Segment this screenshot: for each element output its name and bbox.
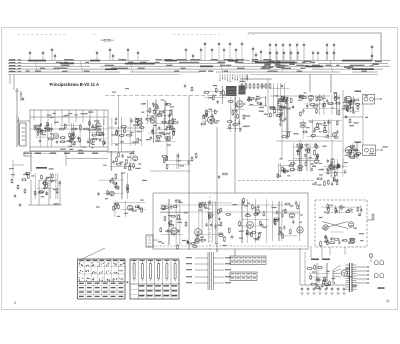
resistor R246 <box>349 145 355 147</box>
label value <box>177 222 182 223</box>
wire center v156 <box>155 99 157 142</box>
capacitor C6 <box>109 48 111 53</box>
wire stage drop <box>336 159 338 177</box>
resistor R73 <box>80 125 82 131</box>
tube V28 <box>96 130 101 135</box>
label value <box>312 184 315 185</box>
wire stage drop <box>319 94 321 115</box>
wire stage rail2 <box>281 130 292 132</box>
wire stage drop <box>284 83 286 117</box>
capacitor C298 <box>45 191 47 195</box>
label bus <box>235 59 244 60</box>
label value scatter <box>359 233 364 234</box>
wire stage rail2 <box>121 209 146 211</box>
label value scatter <box>258 232 261 233</box>
label value <box>322 98 325 99</box>
label bus <box>164 59 172 60</box>
wire stage rail2 <box>37 187 55 189</box>
wire stage drop <box>356 143 358 159</box>
resistor R221 <box>288 165 294 167</box>
table TR frame <box>130 259 179 299</box>
label value scatter <box>167 144 171 145</box>
wire bundle 3 <box>211 252 213 290</box>
wire stage rail <box>107 152 134 154</box>
resistor R230 <box>11 178 13 184</box>
label bundle <box>225 282 231 283</box>
capacitor C37 <box>218 42 220 47</box>
label bus <box>224 59 231 60</box>
wire rf drop <box>33 110 35 121</box>
capacitor C338 <box>187 160 189 164</box>
resistor R324 <box>118 204 120 209</box>
label bus <box>40 68 44 69</box>
wire rf drop <box>82 110 84 123</box>
output box frame <box>315 200 367 247</box>
resistor R172 <box>335 96 337 101</box>
resistor R79 <box>103 140 105 145</box>
wire stage drop <box>111 151 113 171</box>
wire stage drop <box>198 201 200 243</box>
wire cap lead <box>297 55 299 60</box>
label band chunk <box>342 60 372 62</box>
label value <box>304 144 309 145</box>
wire cap lead <box>371 58 373 60</box>
wire v268 <box>267 79 269 118</box>
capacitor C308 <box>112 160 114 164</box>
resistor R224 <box>297 166 304 168</box>
wire stage drop <box>301 143 303 171</box>
capacitor C103 <box>137 123 139 127</box>
wire stage drop <box>235 97 237 132</box>
capacitor C320 <box>97 192 99 196</box>
wire stage drop <box>155 100 157 124</box>
capacitor C307 <box>132 151 134 155</box>
resistor R428 <box>349 238 355 240</box>
label value scatter <box>120 141 124 142</box>
capacitor C88 <box>102 132 104 136</box>
wire stage drop <box>246 199 248 243</box>
label bus <box>84 71 90 72</box>
capacitor C15 <box>260 50 262 55</box>
label 22-66 <box>355 91 362 92</box>
resistor R46 <box>83 128 89 130</box>
capacitor C100 <box>115 121 117 125</box>
wire stage drop <box>327 263 329 289</box>
label value <box>143 103 146 104</box>
capacitor C485 <box>331 287 333 291</box>
capacitor C156 <box>281 84 283 88</box>
wire vol down <box>30 156 32 172</box>
resistor R133 <box>241 83 243 89</box>
resistor R154 <box>276 115 282 117</box>
capacitor C25 <box>290 51 292 56</box>
label bus <box>264 65 270 66</box>
label value scatter <box>294 133 299 134</box>
label value scatter <box>135 168 140 169</box>
label value scatter <box>245 126 250 127</box>
resistor R354 <box>171 215 177 217</box>
resistor R244 <box>350 149 352 154</box>
resistor R249 <box>350 157 356 159</box>
resistor R248 <box>353 149 359 151</box>
resistor R466 <box>307 268 313 270</box>
capacitor C483 <box>319 287 321 291</box>
label value scatter <box>107 193 111 194</box>
resistor R200 <box>283 97 289 99</box>
label value scatter <box>261 86 266 87</box>
label value scatter <box>328 122 332 123</box>
label value <box>351 107 354 108</box>
wire rf drop <box>47 110 49 121</box>
capacitor C237 <box>304 153 306 157</box>
wire stage rail2 <box>87 138 106 140</box>
wire bus jog <box>220 61 223 73</box>
resistor R210 <box>317 122 319 128</box>
resistor R240 <box>191 86 193 91</box>
label value scatter <box>345 107 349 108</box>
label bus <box>355 65 365 66</box>
label bus <box>312 65 320 66</box>
transformer T2 <box>346 263 357 292</box>
label value <box>121 172 125 173</box>
capacitor C132 <box>205 112 207 116</box>
resistor R163 <box>223 90 225 96</box>
resistor R305 <box>118 152 120 158</box>
resistor R110 <box>145 118 152 120</box>
capacitor C24 <box>283 51 285 56</box>
capacitor C220 <box>218 175 220 179</box>
wire stage rail <box>150 110 171 112</box>
label value scatter <box>354 122 359 123</box>
resistor R179 <box>300 111 302 116</box>
wire bus 5 <box>8 71 378 73</box>
wire hang <box>239 74 240 82</box>
label value scatter <box>81 146 86 147</box>
table TL frame <box>78 259 126 299</box>
resistor R54 <box>45 128 51 130</box>
resistor R351 <box>164 216 166 222</box>
capacitor C487 <box>343 287 345 291</box>
label value <box>345 155 350 156</box>
label bus <box>191 62 199 63</box>
resistor R69 <box>69 132 71 138</box>
resistor R71 <box>64 123 66 129</box>
label value scatter <box>319 217 323 218</box>
wire stage rail2 <box>202 120 220 122</box>
wire drop247 <box>246 74 248 80</box>
label bus left <box>9 59 16 60</box>
resistor R45 <box>71 128 77 130</box>
label bus boxtext <box>275 64 280 65</box>
wire stage drop <box>339 94 341 115</box>
label rf under <box>78 153 84 154</box>
label band chunk <box>28 60 46 62</box>
wire stage drop <box>164 100 166 124</box>
resistor R47 <box>95 128 101 130</box>
label bus <box>185 62 192 63</box>
capacitor C330 <box>131 207 133 211</box>
resistor R229 <box>317 154 319 159</box>
table T4 frame <box>230 272 257 281</box>
capacitor C10 <box>185 48 187 53</box>
resistor R390 <box>251 232 253 238</box>
label value scatter <box>342 108 347 109</box>
resistor R275 <box>327 179 329 185</box>
wire cross1 <box>322 222 348 229</box>
label bus <box>208 71 213 72</box>
tube V118 <box>167 137 171 141</box>
wire v332 <box>331 140 333 178</box>
wire stage drop <box>124 201 126 217</box>
wire bus jog <box>130 61 133 73</box>
label value <box>208 212 211 213</box>
capacitor C358 <box>167 229 169 233</box>
wire stage drop <box>280 163 282 177</box>
resistor R173 <box>316 109 318 115</box>
wire boxB out <box>376 149 383 150</box>
resistor R425 <box>326 238 328 244</box>
label bus <box>302 62 306 63</box>
wire stage rail2 <box>35 136 52 138</box>
capacitor C63 <box>44 126 46 130</box>
label bus <box>42 68 45 69</box>
resistor R95 <box>137 138 139 144</box>
tube V205 <box>333 133 337 137</box>
wire rf drop <box>75 110 77 122</box>
capacitor C267 <box>338 164 340 168</box>
capacitor C158 <box>281 111 283 115</box>
wire stage drop <box>312 119 314 139</box>
wire stage rail <box>99 179 124 181</box>
label B <box>126 282 128 284</box>
tube V379 <box>255 209 260 214</box>
capacitor C484 <box>325 287 327 291</box>
label value scatter <box>158 241 162 242</box>
resistor R206 <box>324 126 326 132</box>
wire cap lead <box>127 52 129 60</box>
label bus left <box>9 71 16 72</box>
label bus <box>282 68 291 69</box>
capacitor C263 <box>330 163 332 167</box>
wire stage drop <box>176 153 178 169</box>
label bus <box>230 59 233 60</box>
wire ob drop2 <box>344 247 346 255</box>
capacitor C39 <box>229 42 231 47</box>
capacitor C465 <box>158 126 160 130</box>
wire right h117 <box>343 116 363 118</box>
wire rf drop <box>89 110 91 125</box>
wire bundle 1 <box>207 252 209 290</box>
label rf top <box>66 115 70 116</box>
resistor R189 <box>350 100 352 105</box>
label value <box>315 104 319 105</box>
label value <box>111 134 115 135</box>
resistor R460 <box>153 109 155 115</box>
wire stage drop <box>328 119 330 139</box>
wire stage rail <box>345 101 354 103</box>
label value <box>255 239 259 240</box>
label value scatter <box>324 212 327 213</box>
wire ob drop1 <box>329 247 331 255</box>
wire cap lead <box>283 55 285 60</box>
capacitor C4 <box>54 54 56 59</box>
label value <box>165 231 170 232</box>
resistor R82 <box>92 138 98 140</box>
wire cable top <box>247 34 256 36</box>
wire ant-in <box>17 100 30 121</box>
label value scatter <box>259 111 264 112</box>
label bus <box>180 68 185 69</box>
label value <box>298 100 302 101</box>
svg-text:4: 4 <box>14 301 16 305</box>
resistor R300 <box>116 163 122 165</box>
capacitor C431 <box>325 235 327 239</box>
wire cap lead <box>112 58 114 60</box>
wire h171 <box>150 170 190 172</box>
wire cap lead <box>326 55 328 60</box>
label bus <box>26 71 30 72</box>
capacitor C482 <box>313 287 315 291</box>
label value scatter <box>347 276 352 277</box>
label value <box>312 166 316 167</box>
wire stage rail <box>310 272 330 274</box>
resistor R142 <box>248 98 255 100</box>
wire stage drop <box>49 173 51 199</box>
label bus <box>59 68 68 69</box>
label value scatter <box>94 120 99 121</box>
label bus boxtext <box>357 65 361 66</box>
resistor R148 <box>274 108 276 114</box>
capacitor C29 <box>326 43 328 48</box>
resistor R290 <box>42 182 48 184</box>
resistor R258 <box>337 163 339 168</box>
wire stage rail2 <box>113 142 140 144</box>
wire hang <box>244 74 245 82</box>
label value scatter <box>279 158 282 159</box>
wire stage drop <box>110 151 112 171</box>
label value <box>200 237 204 238</box>
label value <box>163 134 167 135</box>
label value scatter <box>105 198 108 199</box>
label value scatter <box>46 177 51 178</box>
wire gnd rail <box>28 204 62 206</box>
label value <box>319 163 322 164</box>
label value <box>275 220 279 221</box>
wire box-bundle <box>216 249 218 252</box>
wire rf rail2 <box>30 146 108 148</box>
label bundle <box>225 257 231 258</box>
resistor R222 <box>290 169 296 171</box>
resistor R188 <box>345 97 347 102</box>
label rf top <box>75 114 78 115</box>
shield box frame <box>248 33 381 60</box>
resistor R368 <box>220 207 222 213</box>
resistor R247 <box>353 154 359 156</box>
resistor R444 <box>232 124 238 126</box>
resistor R97 <box>136 118 142 120</box>
capacitor C434 <box>338 240 340 244</box>
resistor R429 <box>327 240 329 246</box>
resistor R270 <box>282 166 284 172</box>
wire rf drop <box>54 110 56 125</box>
ground <box>343 293 346 294</box>
label bus boxtext <box>349 67 354 68</box>
label value <box>327 213 330 214</box>
wire drop L1 <box>9 74 11 84</box>
label value scatter <box>321 169 325 170</box>
resistor R269 <box>277 173 279 178</box>
wire stage rail2 <box>307 136 340 138</box>
wire stage rail <box>305 103 340 105</box>
table TL header <box>79 260 124 261</box>
wire cap lead <box>54 58 56 60</box>
label value <box>280 120 285 121</box>
resistor R318 <box>127 188 129 194</box>
label bus <box>211 59 218 60</box>
label bus <box>61 65 69 66</box>
resistor R225 <box>304 149 310 151</box>
wire cap lead <box>252 51 254 60</box>
resistor R413 <box>335 208 337 213</box>
tube V323 <box>128 205 133 210</box>
capacitor C184 <box>326 99 328 103</box>
capacitor C264 <box>328 164 330 168</box>
label value <box>352 149 355 150</box>
wire stage rail2 <box>271 106 284 108</box>
wire stage drop <box>281 201 283 241</box>
label bus boxtext <box>289 64 295 65</box>
label bus boxtext <box>268 67 274 68</box>
table TR symbols <box>132 261 177 282</box>
wire audio top rail <box>160 204 300 206</box>
resistor R55 <box>35 125 41 127</box>
wire cap lead <box>51 52 53 60</box>
label bus <box>190 59 200 60</box>
resistor R303 <box>115 157 117 163</box>
wire cap lead2 <box>229 46 231 60</box>
resistor R234 <box>315 143 317 148</box>
label rf under <box>50 153 56 154</box>
rectifier V50 <box>341 270 347 276</box>
label value scatter <box>279 232 282 233</box>
resistor R387 <box>253 213 259 215</box>
wire h141 <box>276 140 342 142</box>
label bus boxtext <box>269 67 272 68</box>
resistor R423 <box>329 242 335 244</box>
wire psu v300 <box>299 248 301 285</box>
capacitor C164 <box>220 90 222 94</box>
label bundle L <box>186 269 192 270</box>
capacitor C477 <box>321 284 323 288</box>
capacitor C48 <box>39 139 41 143</box>
label rf top <box>88 112 93 113</box>
resistor R120 <box>166 136 168 142</box>
resistor R125 <box>200 123 206 125</box>
label 5-06 <box>378 287 385 289</box>
resistor R362 <box>225 214 231 216</box>
wire stage rail <box>59 125 80 127</box>
wire stage drop <box>265 96 267 107</box>
wire hang <box>222 74 223 79</box>
wire center v189 <box>188 96 190 251</box>
label value scatter <box>382 146 387 147</box>
label value <box>309 121 313 122</box>
resistor R445 <box>237 114 239 120</box>
wire stage drop <box>273 83 275 117</box>
wire cap lead <box>312 55 314 60</box>
resistor R107 <box>172 118 174 124</box>
resistor R313 <box>112 182 118 184</box>
